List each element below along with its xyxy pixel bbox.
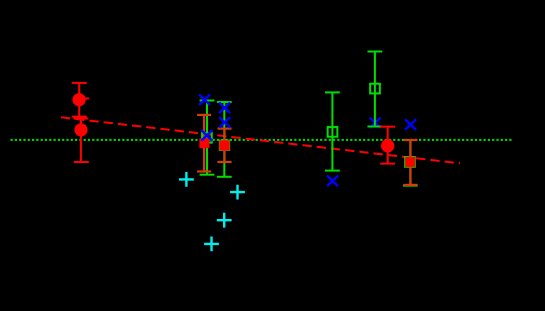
green series error bar 3: [325, 92, 340, 170]
cyan plus marker 2: [230, 185, 245, 200]
cyan plus marker 3: [217, 213, 232, 228]
green open square marker 4: [370, 84, 380, 94]
green series error bar 2: [217, 102, 232, 177]
red dashed trend line: [61, 117, 460, 163]
green series error bar 1: [200, 101, 215, 175]
green open square marker 1: [202, 133, 212, 143]
red filled circle marker 1: [73, 93, 86, 106]
blue X marker 1: [199, 94, 210, 105]
green series error bar 5: [403, 141, 418, 186]
red filled circle marker 3: [381, 139, 394, 152]
green dotted baseline: [11, 139, 513, 141]
cyan plus marker 4: [204, 237, 219, 252]
blue X marker 7: [405, 119, 416, 130]
red circle error bar 1: [72, 83, 90, 117]
red filled circle marker 2: [74, 123, 87, 136]
red filled square marker 3: [405, 157, 415, 167]
green open square marker 2: [220, 141, 229, 150]
orange-red error bar of red square 2: [218, 129, 232, 162]
cyan plus marker 1: [179, 172, 194, 187]
red circle error bar 3: [380, 127, 395, 164]
green open square marker 5: [405, 157, 415, 167]
red circle error bar 2: [73, 119, 88, 163]
blue X marker 5: [327, 176, 338, 187]
blue X marker 6: [370, 118, 381, 129]
red filled square marker 2: [219, 140, 229, 150]
orange-red error bar of red square 3: [404, 140, 418, 185]
green series error bar 4: [368, 52, 383, 127]
blue X marker 3: [219, 103, 230, 114]
orange-red error bar of red square 1: [197, 115, 211, 172]
blue X marker 2: [201, 130, 212, 141]
red filled square marker 1: [199, 138, 209, 148]
green open square marker 3: [328, 127, 338, 137]
blue X marker 4: [219, 117, 230, 128]
